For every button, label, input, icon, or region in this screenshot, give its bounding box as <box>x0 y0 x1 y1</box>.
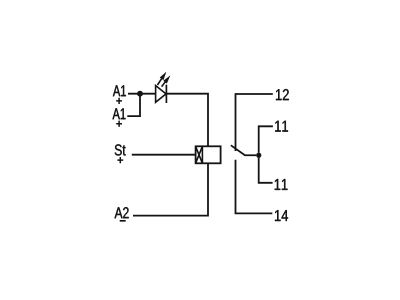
terminal label St <box>115 144 126 155</box>
wire coil bottom down to A2 line <box>133 163 208 215</box>
LED cathode bar <box>165 85 167 103</box>
wire LED cathode to corner down to coil <box>166 94 208 147</box>
LED emission arrow 1 <box>157 79 161 85</box>
wire St to coil box <box>132 154 196 156</box>
wire and terminal 14 (NO contact) <box>236 160 273 214</box>
relay coil K1 box <box>196 146 221 163</box>
common node dot <box>256 153 261 158</box>
terminal label 12 <box>276 89 289 100</box>
wire A1 lower elbow up to junction <box>127 94 140 116</box>
terminal label 14 <box>275 210 288 221</box>
LED D1 triangle <box>156 86 166 103</box>
wire A1 upper to junction and LED anode <box>128 93 156 95</box>
wire and terminal 12 (NC contact) <box>236 94 273 151</box>
terminal label A1 (upper) <box>113 85 126 96</box>
terminal label A2 <box>115 207 129 218</box>
terminal label 11 upper <box>275 121 288 132</box>
LED emission arrow 2 <box>162 82 166 87</box>
contact blade from NC seat to common <box>231 145 256 155</box>
wire and terminal 11 (common lower) <box>259 158 273 183</box>
coil box X mark <box>196 146 203 163</box>
terminal label A1 (lower) <box>113 108 126 119</box>
plus sign under St <box>117 157 123 163</box>
plus sign under upper A1 <box>116 98 122 104</box>
coil box divider <box>201 146 203 163</box>
plus sign under lower A1 <box>116 121 122 127</box>
minus sign under A2 <box>120 220 126 222</box>
junction node dot <box>137 91 143 97</box>
terminal label 11 lower <box>275 179 288 190</box>
wire and terminal 11 (common upper) <box>259 126 273 152</box>
